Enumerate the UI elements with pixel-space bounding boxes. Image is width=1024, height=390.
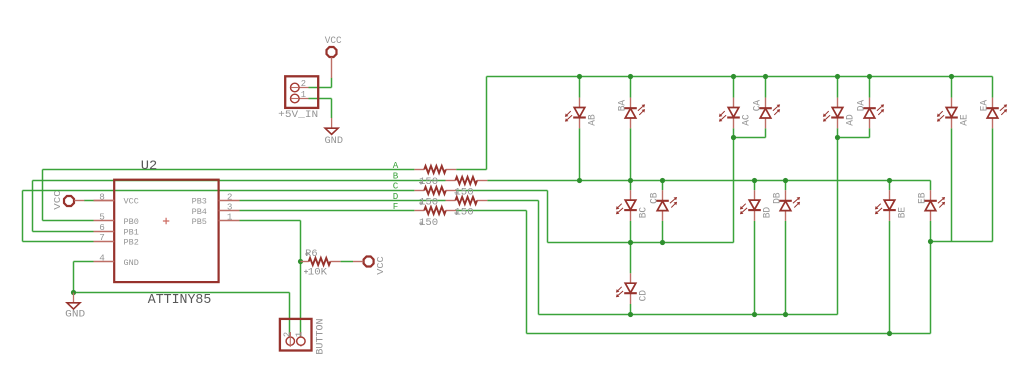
wire GND to button pin2 (289, 293, 291, 342)
svg-text:10K: 10K (308, 268, 328, 279)
wire net B bus (487, 180, 930, 182)
wire col EA upper (992, 77, 994, 98)
junction net B CB (660, 178, 665, 183)
LED CB (649, 190, 677, 221)
wire net C drop (547, 191, 549, 243)
wire PB0 riser (42, 170, 44, 221)
wire col EA lower (992, 128, 994, 241)
wire col CA upper (765, 77, 767, 98)
LED DB (772, 190, 800, 221)
LED BD (740, 190, 773, 221)
wire PB5 horizontal (240, 220, 301, 222)
junction net F BE (887, 331, 892, 336)
LED BA (617, 98, 645, 129)
junction pair AD (835, 135, 840, 140)
wire net C bus (548, 242, 734, 244)
wire col DA upper (869, 77, 871, 98)
connector BUTTON (280, 319, 312, 351)
wire PB0 horizontal (43, 220, 94, 222)
resistor R4 150 net D (446, 197, 488, 219)
svg-text:BD: BD (761, 207, 772, 218)
svg-text:4: 4 (99, 253, 105, 264)
wire col AE lower (951, 128, 953, 241)
svg-text:DA: DA (856, 100, 867, 111)
wire net F drop (526, 211, 528, 334)
svg-text:R6: R6 (305, 249, 317, 260)
svg-text:VCC: VCC (52, 190, 63, 210)
junction net B BD (752, 178, 757, 183)
resistor R1 150 net A (414, 166, 456, 188)
U2 pin labels (124, 197, 207, 269)
LED AC (719, 98, 752, 129)
resistor R3 150 net C (414, 187, 456, 209)
wire col AD lower (837, 128, 839, 314)
wire net D link (487, 200, 538, 202)
wire col CB lower (662, 221, 664, 243)
wire net F bus (527, 333, 931, 335)
LED CA (752, 98, 780, 129)
wire col EB lower (930, 221, 932, 334)
svg-text:7: 7 (99, 232, 105, 243)
junction top bus AD (835, 74, 840, 79)
wire col BA lower (630, 128, 632, 180)
wire net D drop (538, 201, 540, 315)
svg-text:2: 2 (282, 332, 292, 337)
svg-text:1: 1 (227, 212, 233, 223)
U2 pin numbers (99, 191, 233, 263)
svg-text:DB: DB (772, 192, 783, 203)
wire col BE lower (889, 221, 891, 334)
svg-text:EB: EB (917, 192, 928, 203)
svg-text:AE: AE (958, 114, 969, 125)
LED AB (565, 98, 598, 129)
svg-text:CB: CB (649, 192, 660, 203)
junction net E EB (928, 239, 933, 244)
junction top bus DA (867, 74, 872, 79)
wire PB1 horizontal (33, 231, 94, 233)
wire R6 to VCC (341, 261, 353, 263)
wire col AC lower (733, 128, 735, 242)
wire col DB upper (785, 181, 787, 191)
LED EB (917, 190, 945, 221)
wire col AD upper (837, 77, 839, 98)
junction net D BD (752, 312, 757, 317)
svg-text:VCC: VCC (124, 197, 139, 207)
svg-text:+5V_IN: +5V_IN (278, 110, 318, 121)
svg-text:VCC: VCC (375, 256, 386, 275)
supply VCC symbol top (327, 47, 337, 57)
wire col DA lower (869, 128, 871, 137)
svg-text:150: 150 (454, 208, 473, 219)
wire PB1 riser (32, 181, 34, 232)
wire net E join (931, 241, 993, 243)
junction net C CB (660, 240, 665, 245)
junction top bus CA (763, 74, 768, 79)
svg-text:AD: AD (844, 114, 855, 125)
svg-text:AC: AC (740, 114, 751, 125)
IC U2 ATTINY85 (94, 180, 240, 282)
junction net D CD (628, 312, 633, 317)
svg-text:AB: AB (586, 114, 597, 125)
svg-text:F: F (393, 201, 399, 212)
wire col AB upper (579, 77, 581, 98)
svg-text:1: 1 (301, 90, 306, 100)
wire col BD upper (754, 181, 756, 191)
svg-text:BC: BC (637, 207, 648, 218)
LED BC (616, 190, 649, 221)
wire col AE upper (951, 77, 953, 98)
junction net B BE (887, 178, 892, 183)
LED AD (823, 98, 856, 129)
svg-text:150: 150 (419, 177, 438, 188)
wire col CB upper (662, 181, 664, 191)
resistor R2 150 net B (446, 177, 488, 199)
svg-text:CA: CA (752, 100, 763, 111)
svg-text:GND: GND (124, 258, 139, 268)
svg-text:PB5: PB5 (192, 217, 207, 227)
wire net A top bus (487, 76, 993, 78)
svg-text:BE: BE (896, 207, 907, 218)
ground symbol top (325, 118, 338, 134)
wire +5V pin2 to VCC (309, 87, 332, 89)
supply VCC symbol at R6 (364, 257, 374, 267)
svg-text:CD: CD (637, 290, 648, 301)
wire pair join AC-CA (734, 137, 766, 139)
wire net F link (456, 210, 526, 212)
junction pair AC (731, 135, 736, 140)
wire GND drop 5v (331, 99, 333, 119)
ground symbol left (67, 293, 80, 309)
svg-text:BA: BA (617, 100, 628, 111)
junction R6 junction (298, 259, 303, 264)
svg-text:GND: GND (325, 135, 344, 146)
LED CD (616, 273, 649, 304)
junction GND junction (71, 290, 76, 295)
supply VCC symbol at pin8 (64, 196, 74, 206)
wire net D bus (539, 314, 838, 316)
junction net B BC (628, 178, 633, 183)
svg-text:PB3: PB3 (192, 197, 207, 207)
wire col CD upper (630, 243, 632, 274)
wire col EB upper (930, 181, 932, 191)
svg-text:PB4: PB4 (192, 207, 207, 217)
svg-text:ATTINY85: ATTINY85 (148, 293, 212, 308)
LED BE (875, 190, 908, 221)
wire col DB lower (785, 221, 787, 315)
wire col BD lower (754, 221, 756, 315)
junction top bus AE (949, 74, 954, 79)
wire PB2 riser (22, 191, 24, 242)
svg-text:A: A (393, 160, 399, 171)
resistor R5 150 net F (414, 207, 456, 229)
wire VCC riser (331, 78, 333, 88)
junction net D DB (783, 312, 788, 317)
wire net F row (240, 210, 415, 212)
LED DA (856, 98, 884, 129)
junction top bus AB (577, 74, 582, 79)
wire GND drop (73, 262, 75, 293)
wire net D row (240, 200, 446, 202)
wire col AC upper (733, 77, 735, 98)
wire GND pin4 (74, 261, 94, 263)
wire col BC lower (630, 221, 632, 243)
wire PB5 drop (300, 221, 302, 342)
wire net A row (43, 169, 415, 171)
wire VCC pin8 link (84, 200, 94, 202)
svg-text:150: 150 (419, 218, 438, 229)
LED EA (979, 98, 1007, 129)
LED AE (937, 98, 970, 129)
svg-text:2: 2 (301, 79, 306, 89)
junction top bus AC (731, 74, 736, 79)
wire +5V pin1 to GND (309, 98, 332, 100)
wire net A to top bus (456, 169, 486, 171)
wire PB2 horizontal (23, 241, 94, 243)
wire col BE upper (889, 181, 891, 191)
svg-text:PB1: PB1 (124, 227, 139, 237)
wire pair join AD-DA (838, 137, 870, 139)
wire col BA upper (630, 77, 632, 98)
resistor R6 10K (301, 249, 341, 278)
wire net A riser (486, 77, 488, 170)
wire col CA lower (765, 128, 767, 137)
connector +5V_IN (285, 76, 318, 108)
svg-text:PB2: PB2 (124, 238, 139, 248)
svg-text:VCC: VCC (325, 35, 342, 46)
junction net B DB (783, 178, 788, 183)
svg-text:BUTTON: BUTTON (315, 318, 326, 354)
wire net C row (23, 190, 415, 192)
svg-text:GND: GND (65, 308, 85, 319)
wire GND row (74, 292, 290, 294)
wire col AB lower (579, 128, 581, 180)
junction top bus BA (628, 74, 633, 79)
wire net C link (456, 190, 547, 192)
wire col BC upper (630, 181, 632, 191)
wire net B row (33, 180, 446, 182)
svg-text:EA: EA (979, 100, 990, 111)
svg-text:PB0: PB0 (124, 217, 139, 227)
junction net C BC (628, 240, 633, 245)
svg-text:1: 1 (295, 332, 305, 337)
wire col CD lower (630, 304, 632, 315)
junction net B AB (577, 178, 582, 183)
svg-text:U2: U2 (141, 158, 158, 173)
